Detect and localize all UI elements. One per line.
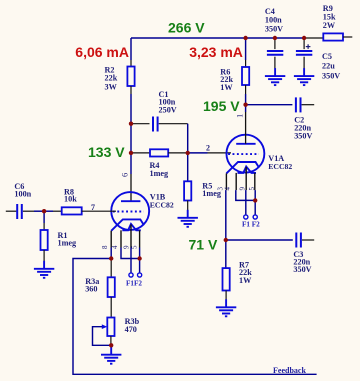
svg-text:10k: 10k <box>64 195 77 204</box>
wire: C1 to grid node <box>187 124 189 153</box>
wire: grid node to V1A grid pin 2 <box>188 152 231 154</box>
svg-text:1W: 1W <box>239 276 252 285</box>
R3a labels <box>85 277 99 293</box>
R8 labels <box>64 187 77 203</box>
capacitor C4 <box>267 38 283 69</box>
svg-text:266 V: 266 V <box>168 20 205 36</box>
svg-text:6: 6 <box>120 173 130 177</box>
resistor R4 <box>131 149 188 156</box>
resistor R2 <box>127 60 134 94</box>
svg-text:C5: C5 <box>322 52 332 61</box>
svg-text:9: 9 <box>123 245 131 249</box>
ground under C4 <box>265 68 285 85</box>
ground under R3b <box>101 347 121 364</box>
svg-text:350V: 350V <box>322 71 340 80</box>
terminal F2 (V1A) <box>253 215 257 219</box>
resistor R1 <box>41 211 48 261</box>
svg-text:8: 8 <box>101 245 109 249</box>
svg-text:2: 2 <box>206 144 210 153</box>
C3 labels <box>293 250 311 274</box>
svg-text:ECC82: ECC82 <box>268 162 292 171</box>
svg-text:Feedback: Feedback <box>273 366 306 375</box>
C2 labels <box>294 115 312 140</box>
svg-text:4: 4 <box>111 245 119 249</box>
resistor R3a <box>108 259 115 318</box>
capacitor C6 (input) <box>6 204 44 219</box>
junction dots overlay <box>42 36 306 348</box>
V1B name labels <box>150 192 174 209</box>
svg-text:5: 5 <box>248 187 256 191</box>
svg-text:ECC82: ECC82 <box>150 201 174 210</box>
svg-text:3,23 mA: 3,23 mA <box>189 44 243 60</box>
svg-text:5: 5 <box>131 245 139 249</box>
svg-text:1: 1 <box>234 114 244 118</box>
terminal F1 (V1B) <box>129 273 133 277</box>
resistor R9 <box>304 33 352 40</box>
wire: V1A heater pin5 to F2 <box>254 190 256 215</box>
R2 value labels <box>105 66 118 92</box>
svg-text:1meg: 1meg <box>58 238 78 247</box>
wire: feedback loop <box>73 259 317 375</box>
wire: V1A heater pin4 <box>236 190 255 200</box>
svg-text:22k: 22k <box>105 74 118 83</box>
resistor R8 <box>44 207 116 214</box>
C6 labels <box>14 182 31 198</box>
C5 labels <box>322 52 340 80</box>
svg-text:1meg: 1meg <box>150 169 170 178</box>
V1A pin digits 3 4 9 5 <box>216 187 256 191</box>
wire: R3b to ground <box>110 345 112 347</box>
resistor R5 <box>184 153 191 210</box>
svg-text:1W: 1W <box>220 83 233 92</box>
R3b labels <box>125 317 140 334</box>
ground under C5 <box>294 68 314 85</box>
R1 labels <box>58 231 78 247</box>
wire: B+ 266V bus <box>131 38 304 60</box>
R9 labels <box>323 4 336 30</box>
V1A name labels <box>268 154 292 171</box>
wire: V1B heater pin5 to F2 <box>139 248 141 273</box>
C4 labels <box>265 7 283 34</box>
svg-text:4: 4 <box>223 187 231 191</box>
wire: V1A cathode down to 71V node <box>225 190 227 240</box>
svg-text:350V: 350V <box>293 265 311 274</box>
resistor R6 <box>242 38 249 105</box>
svg-text:350V: 350V <box>265 24 283 33</box>
R7 labels <box>239 261 252 285</box>
capacitor C1 <box>131 117 188 132</box>
resistor R7 <box>223 240 230 300</box>
capacitor C2 <box>246 97 315 112</box>
wire: V1B heater pin4 <box>121 248 140 259</box>
R5 labels <box>202 182 222 198</box>
terminal F2 (V1B) <box>138 273 142 277</box>
svg-text:250V: 250V <box>159 105 177 114</box>
wire: V1B heater ct to F1 <box>130 248 132 273</box>
op V1A triode ECC82 <box>226 135 264 190</box>
svg-text:2W: 2W <box>323 21 336 30</box>
svg-text:9: 9 <box>238 187 246 191</box>
svg-text:F1F2: F1F2 <box>126 279 142 287</box>
trimmer R3b <box>93 318 115 346</box>
C1 labels <box>159 90 177 115</box>
svg-text:195 V: 195 V <box>203 98 240 114</box>
wire: V1A heater ct to F1 <box>245 190 247 215</box>
ground under R5 <box>178 210 198 227</box>
capacitor C3 <box>226 233 314 248</box>
svg-text:6,06 mA: 6,06 mA <box>75 44 129 60</box>
svg-text:F1 F2: F1 F2 <box>242 220 260 228</box>
svg-text:22u: 22u <box>322 62 335 71</box>
svg-text:133 V: 133 V <box>88 144 125 160</box>
svg-text:3W: 3W <box>105 83 118 92</box>
svg-text:7: 7 <box>91 203 95 212</box>
svg-text:470: 470 <box>125 325 137 334</box>
wire: R2 to V1B plate <box>130 94 132 201</box>
svg-text:71 V: 71 V <box>189 237 218 253</box>
wire: R6 to V1A plate <box>245 105 247 112</box>
wire: V1B cathode down <box>110 248 112 259</box>
svg-text:C4: C4 <box>265 7 275 16</box>
svg-text:350V: 350V <box>294 131 312 140</box>
V1B pin digits 8 4 9 5 <box>101 245 139 249</box>
svg-text:100n: 100n <box>265 16 282 25</box>
svg-text:100n: 100n <box>14 189 31 198</box>
ground under R1 <box>34 261 54 278</box>
ground under R7 <box>216 299 236 316</box>
op V1B triode ECC82 <box>111 192 149 247</box>
capacitor C5 (electrolytic) <box>296 38 312 69</box>
terminal F1 (V1A) <box>244 215 248 219</box>
R6 labels <box>220 67 233 92</box>
svg-text:360: 360 <box>85 284 97 293</box>
R4 labels <box>150 161 170 178</box>
